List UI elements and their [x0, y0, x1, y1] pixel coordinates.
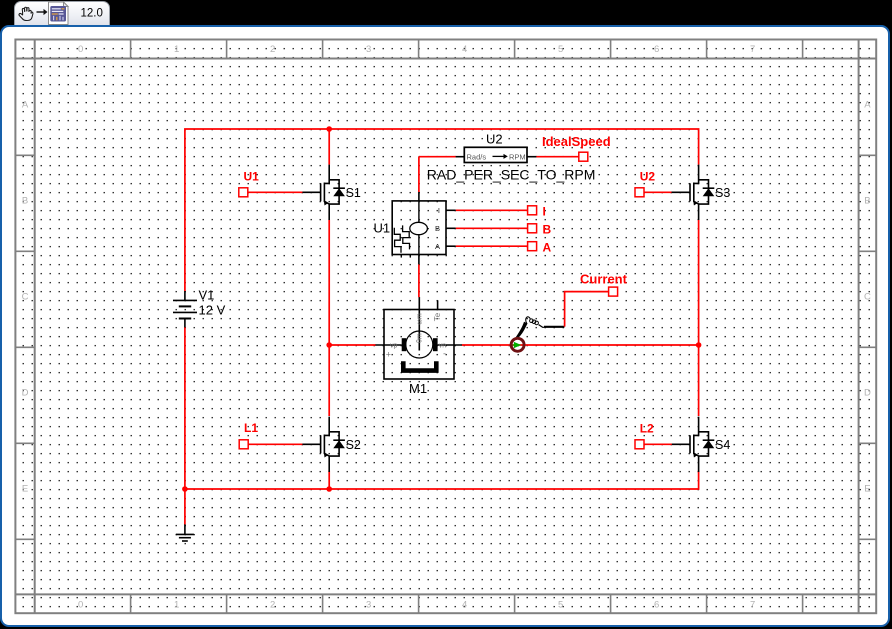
svg-text:A: A	[22, 99, 29, 110]
svg-text:U1: U1	[244, 170, 260, 184]
svg-text:RAD_PER_SEC_TO_RPM: RAD_PER_SEC_TO_RPM	[427, 167, 596, 183]
svg-text:12 V: 12 V	[199, 302, 226, 317]
svg-text:V1: V1	[199, 288, 215, 303]
ground	[176, 524, 194, 541]
svg-text:S3: S3	[715, 186, 730, 200]
svg-text:Rad/s: Rad/s	[467, 153, 487, 162]
terminal L2	[635, 422, 672, 449]
svg-text:4: 4	[462, 600, 467, 611]
svg-text:I: I	[438, 206, 440, 215]
tab arrow icon	[37, 9, 48, 15]
wire S1-S2 link	[328, 220, 330, 416]
wire middle rail left	[329, 344, 375, 346]
svg-text:5: 5	[558, 600, 563, 611]
svg-text:U2: U2	[486, 132, 503, 147]
svg-text:12.0: 12.0	[81, 8, 103, 20]
svg-text:B: B	[435, 224, 440, 233]
U2 converter box	[419, 147, 579, 162]
terminal U2 gate	[635, 170, 672, 197]
svg-text:S4: S4	[715, 438, 730, 452]
svg-text:L1: L1	[244, 421, 258, 435]
svg-text:0: 0	[78, 600, 83, 611]
svg-text:0: 0	[78, 44, 83, 55]
svg-text:-: -	[443, 349, 446, 359]
junction middle left	[326, 342, 332, 348]
svg-text:D: D	[864, 388, 871, 399]
U1 pin A	[446, 241, 552, 255]
transistor S2	[302, 417, 345, 472]
junction bottom S2	[326, 486, 332, 492]
svg-text:ωm: ωm	[417, 313, 424, 324]
svg-text:E: E	[22, 484, 28, 495]
svg-text:+: +	[386, 350, 391, 360]
svg-text:3: 3	[366, 44, 371, 55]
tab document icon	[49, 2, 69, 25]
svg-text:D: D	[22, 388, 29, 399]
svg-text:4: 4	[462, 44, 467, 55]
svg-text:2: 2	[270, 600, 275, 611]
svg-text:5: 5	[558, 44, 563, 55]
svg-text:1: 1	[174, 44, 179, 55]
wire left rail battery to ground	[184, 327, 186, 525]
terminal U1	[239, 170, 303, 197]
transistor S1	[302, 165, 345, 220]
terminal L1	[239, 421, 302, 449]
svg-text:Te: Te	[433, 312, 442, 321]
svg-text:I: I	[543, 205, 546, 219]
svg-text:RPM: RPM	[509, 153, 526, 162]
svg-text:C: C	[22, 292, 29, 303]
svg-text:1: 1	[174, 600, 179, 611]
svg-text:B: B	[864, 196, 870, 207]
svg-text:S2: S2	[346, 438, 361, 452]
svg-text:7: 7	[750, 44, 755, 55]
transistor S4	[672, 417, 715, 472]
U1 pin B	[446, 223, 552, 237]
battery V1	[173, 291, 197, 327]
svg-text:A: A	[543, 241, 552, 255]
junction top	[326, 126, 332, 132]
svg-text:A: A	[864, 99, 871, 110]
svg-text:E: E	[864, 484, 870, 495]
U1 pin I	[446, 205, 546, 219]
terminal IdealSpeed	[542, 134, 611, 161]
current probe	[511, 272, 628, 352]
wire top rail	[185, 129, 699, 291]
browser tab bar	[14, 1, 110, 27]
svg-text:S1: S1	[346, 186, 361, 200]
svg-text:M1: M1	[409, 381, 427, 396]
transistor S3	[672, 165, 715, 220]
svg-text:U2: U2	[640, 170, 656, 184]
svg-text:θm: θm	[417, 333, 424, 343]
svg-text:6: 6	[654, 44, 659, 55]
svg-text:vp: vp	[390, 343, 398, 350]
svg-text:U1: U1	[374, 221, 391, 236]
svg-text:Current: Current	[580, 272, 628, 287]
U1 machine controller box	[392, 201, 446, 258]
svg-text:B: B	[22, 196, 28, 207]
wire S1 top	[328, 129, 330, 165]
svg-text:B: B	[543, 223, 552, 237]
motor M1	[375, 297, 462, 379]
junction middle right	[696, 342, 702, 348]
U1 vertical shaft wire	[418, 157, 420, 298]
svg-text:2: 2	[270, 44, 275, 55]
wire S2 bottom	[328, 471, 330, 489]
svg-text:IdealSpeed: IdealSpeed	[542, 134, 611, 149]
svg-text:3: 3	[366, 600, 371, 611]
wire bottom rail horizontal	[185, 471, 699, 489]
svg-text:L2: L2	[640, 422, 654, 436]
wire middle rail right	[462, 344, 699, 346]
svg-text:A: A	[435, 242, 440, 251]
tab hand icon	[19, 7, 33, 20]
svg-text:C: C	[864, 292, 871, 303]
svg-text:7: 7	[750, 600, 755, 611]
wire S3-S4 link	[698, 220, 700, 416]
svg-text:6: 6	[654, 600, 659, 611]
junction bottom left	[182, 486, 188, 492]
